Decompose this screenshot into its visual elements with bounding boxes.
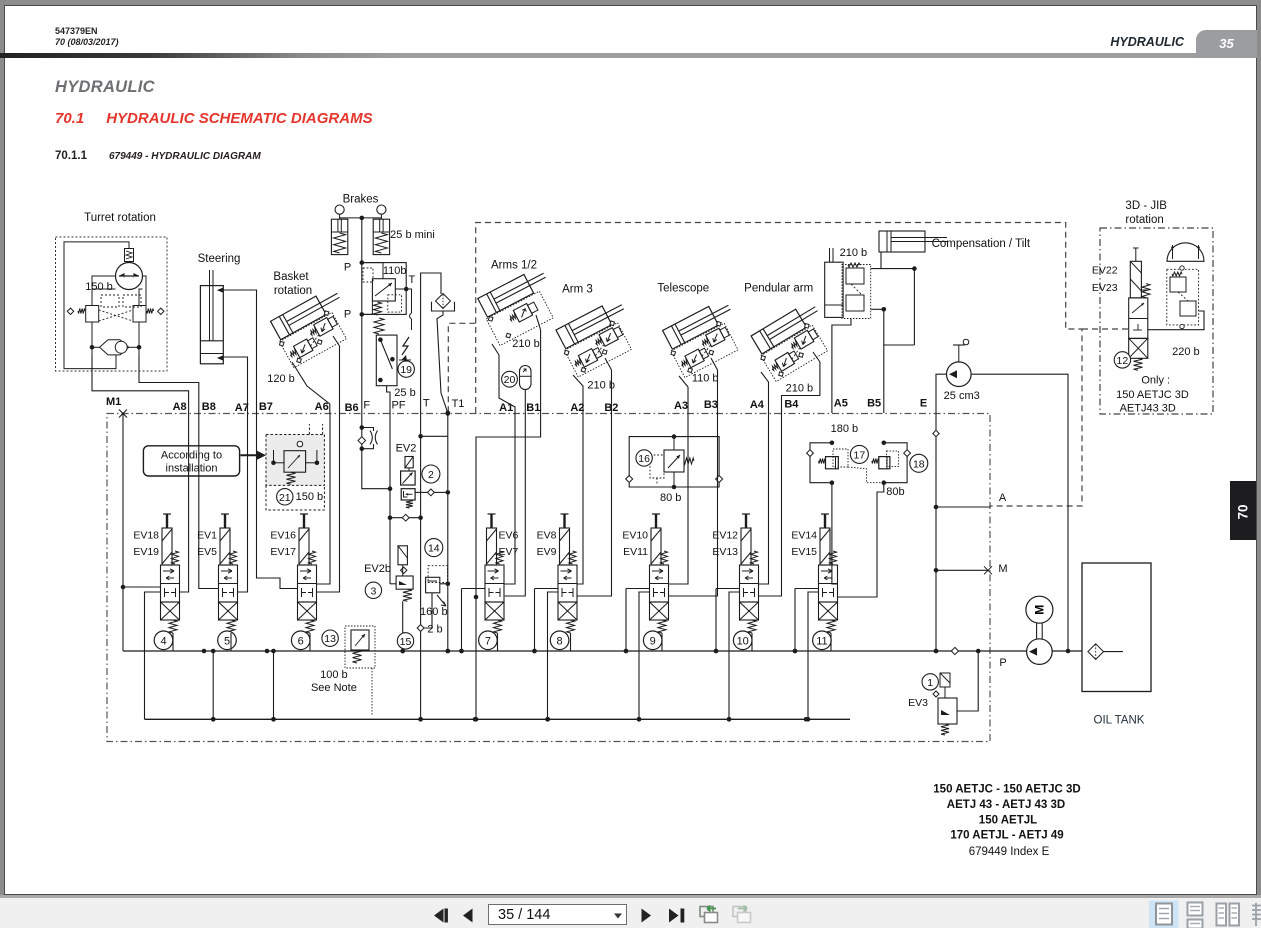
svg-text:70: 70: [1236, 504, 1251, 519]
